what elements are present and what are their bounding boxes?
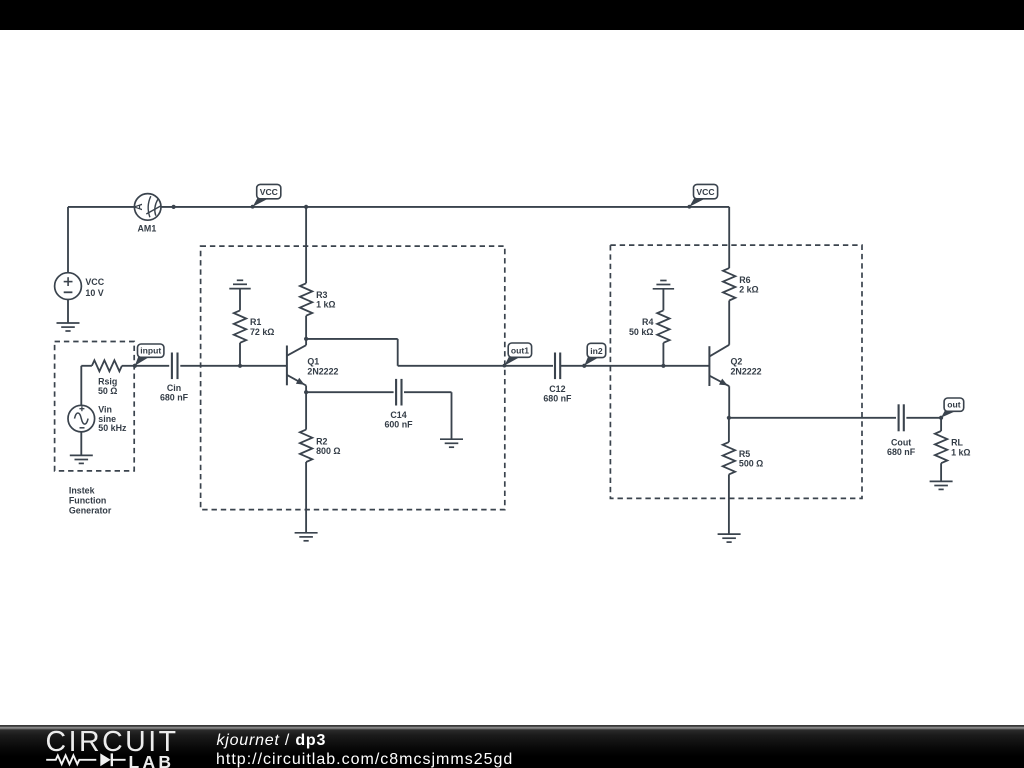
svg-text:C12: C12 [549, 384, 565, 394]
svg-text:R3: R3 [316, 290, 327, 300]
svg-text:600 nF: 600 nF [384, 420, 413, 430]
svg-text:50 kHz: 50 kHz [98, 423, 127, 433]
svg-text:2N2222: 2N2222 [731, 366, 762, 376]
svg-text:72 kΩ: 72 kΩ [250, 327, 274, 337]
svg-text:680 nF: 680 nF [887, 447, 916, 457]
svg-text:RL: RL [951, 438, 963, 448]
svg-text:Function: Function [69, 495, 106, 505]
svg-text:50 kΩ: 50 kΩ [629, 327, 653, 337]
svg-text:R6: R6 [739, 275, 750, 285]
svg-text:R1: R1 [250, 317, 261, 327]
svg-text:1 kΩ: 1 kΩ [951, 447, 970, 457]
svg-text:C14: C14 [390, 410, 406, 420]
svg-text:R5: R5 [739, 449, 750, 459]
svg-text:Instek: Instek [69, 485, 95, 495]
svg-text:Cout: Cout [891, 437, 911, 447]
svg-text:VCC: VCC [260, 187, 278, 197]
svg-text:R2: R2 [316, 436, 327, 446]
svg-text:input: input [140, 346, 161, 356]
svg-text:10 V: 10 V [85, 288, 103, 298]
svg-text:500 Ω: 500 Ω [739, 458, 763, 468]
svg-text:in2: in2 [590, 346, 603, 356]
svg-text:50 Ω: 50 Ω [98, 386, 117, 396]
svg-text:Q2: Q2 [731, 357, 743, 367]
svg-text:1 kΩ: 1 kΩ [316, 300, 335, 310]
svg-text:2N2222: 2N2222 [307, 366, 338, 376]
svg-text:680 nF: 680 nF [160, 393, 189, 403]
svg-text:800 Ω: 800 Ω [316, 446, 340, 456]
svg-text:R4: R4 [642, 317, 653, 327]
svg-text:VCC: VCC [696, 187, 714, 197]
svg-text:Rsig: Rsig [98, 377, 117, 387]
svg-text:A: A [134, 203, 145, 210]
svg-text:2 kΩ: 2 kΩ [739, 285, 758, 295]
svg-text:out: out [947, 400, 960, 410]
svg-text:680 nF: 680 nF [543, 394, 572, 404]
svg-text:VCC: VCC [85, 277, 104, 287]
svg-text:out1: out1 [511, 346, 529, 356]
svg-text:Q1: Q1 [307, 357, 319, 367]
svg-text:Generator: Generator [69, 505, 112, 515]
svg-text:Cin: Cin [167, 383, 181, 393]
svg-text:AM1: AM1 [138, 223, 157, 233]
